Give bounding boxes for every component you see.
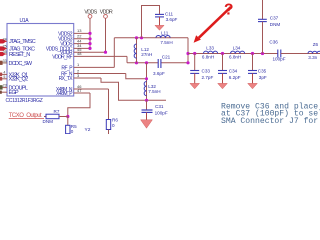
inductor L11 7.5nH — [156, 30, 173, 45]
svg-text:EGP: EGP — [9, 90, 20, 96]
svg-text:7.5nH: 7.5nH — [160, 40, 172, 45]
svg-text:4: 4 — [3, 71, 5, 75]
node LPF takeoff — [186, 52, 189, 55]
node at lower line right end — [186, 61, 189, 64]
pin VDDR_RF (48) — [52, 51, 127, 60]
net label TCXO_Output — [9, 113, 44, 119]
pin DCDC_SW (33) — [0, 59, 33, 67]
resistor R5 0 — [66, 117, 78, 134]
wire RF_P riser — [113, 38, 115, 68]
svg-text:48: 48 — [77, 51, 82, 56]
svg-text:Y2: Y2 — [85, 127, 91, 133]
wire X48M_P staircase — [68, 93, 90, 117]
inductor L12 27nH — [134, 38, 152, 63]
svg-text:C37: C37 — [270, 16, 279, 21]
ground under C31 — [141, 112, 153, 128]
node on bus pin44 — [88, 42, 91, 45]
wire VDDR drop — [105, 18, 107, 52]
svg-text:C21: C21 — [162, 54, 171, 59]
svg-text:3.3n: 3.3n — [308, 55, 317, 60]
svg-text:L11: L11 — [161, 30, 169, 35]
svg-text:L34: L34 — [233, 45, 241, 50]
svg-text:100pF: 100pF — [155, 110, 168, 115]
node C37 tap — [261, 52, 264, 55]
ground under C33 — [190, 83, 200, 88]
resistor R6 0 — [106, 118, 118, 134]
svg-text:3.6pF: 3.6pF — [166, 17, 178, 22]
pin EGP — [0, 90, 19, 96]
svg-text:100pF: 100pF — [273, 56, 286, 61]
svg-text:5: 5 — [3, 75, 5, 79]
wire VDDR_RF riser to lower line — [126, 56, 128, 62]
svg-text:C31: C31 — [155, 104, 164, 109]
node C34 tap — [221, 52, 224, 55]
capacitor C31 100pF — [142, 100, 168, 115]
svg-text:SMA Connector J7 for the: SMA Connector J7 for the — [221, 117, 320, 126]
power symbol VDDR — [100, 10, 113, 19]
wire RF_N route — [126, 74, 147, 79]
svg-text:Z6: Z6 — [313, 42, 319, 47]
svg-text:L33: L33 — [206, 45, 214, 50]
note text — [221, 102, 320, 126]
pin VDDR (45) — [60, 47, 105, 56]
svg-text:1: 1 — [77, 62, 80, 67]
svg-text:JTAG_TMSC: JTAG_TMSC — [9, 39, 36, 45]
svg-text:3pF: 3pF — [259, 75, 267, 80]
pin RF_N (2) — [61, 68, 126, 77]
svg-text:C11: C11 — [165, 12, 174, 17]
svg-text:35: 35 — [3, 50, 7, 54]
capacitor C36 100pF (series) — [269, 39, 307, 61]
node L12 top — [135, 36, 138, 39]
svg-text:0: 0 — [71, 129, 74, 134]
ground under C34 — [218, 83, 228, 88]
wire C11 loop — [142, 6, 160, 38]
node C11 riser tap — [140, 36, 143, 39]
svg-text:47: 47 — [77, 88, 82, 93]
pin X32K_Q2 — [0, 75, 28, 83]
svg-text:C34: C34 — [229, 68, 238, 73]
svg-text:13: 13 — [77, 28, 82, 33]
node C35 tap — [251, 52, 254, 55]
svg-text:6.8nH: 6.8nH — [202, 55, 214, 60]
svg-text:C36: C36 — [269, 39, 278, 44]
svg-text:X32K_Q2: X32K_Q2 — [9, 77, 29, 83]
wire RX_TX route — [101, 78, 166, 100]
pin JTAG_TMSC (24) — [0, 37, 36, 45]
node on bus pin22 — [88, 37, 91, 40]
wire lower RF line (VDDR_RF net) — [127, 62, 158, 64]
svg-text:RF_P: RF_P — [61, 65, 73, 71]
node on bus pin34 — [88, 47, 91, 50]
svg-text:33: 33 — [3, 59, 7, 63]
svg-text:RX_TX: RX_TX — [59, 76, 74, 82]
node R5/R7 junction — [66, 115, 69, 118]
node C31 top — [145, 99, 148, 102]
inductor L34 6.8nH — [229, 45, 245, 59]
svg-text:23: 23 — [3, 84, 7, 88]
wire X48M_N to R6 — [108, 89, 110, 120]
pin VDDS (44) — [60, 38, 90, 47]
svg-text:?: ? — [224, 2, 233, 19]
node RF_N joins L32 — [145, 77, 148, 80]
svg-text:DNM: DNM — [270, 22, 281, 27]
capacitor C33 2.7pF — [190, 54, 213, 85]
pin VDDS3 (22) — [58, 34, 90, 43]
svg-text:6.2pF: 6.2pF — [229, 75, 241, 80]
node VDDR pin45 — [104, 51, 107, 54]
svg-text:CC1312R1F3RGZ: CC1312R1F3RGZ — [6, 98, 43, 104]
node C33 tap — [193, 52, 196, 55]
svg-text:VDDR_RF: VDDR_RF — [52, 54, 72, 60]
power symbol VDDS — [84, 10, 97, 19]
svg-text:25: 25 — [3, 45, 7, 49]
capacitor C35 3pF — [248, 54, 267, 85]
pin JTAG_TCKC (25) — [0, 45, 35, 53]
wire L11 right descent — [187, 38, 189, 63]
svg-text:X48M_P: X48M_P — [56, 91, 73, 97]
ground under C35 — [248, 83, 258, 88]
capacitor C21 3.6pF (series) — [153, 54, 171, 75]
svg-text:3.6pF: 3.6pF — [153, 71, 165, 76]
inductor L33 6.8nH — [202, 45, 218, 59]
capacitor C37 DNM riser — [258, 0, 280, 54]
svg-text:24: 24 — [3, 37, 7, 41]
pin VDDS_DCDC (34) — [46, 43, 90, 52]
wire VDDS bus — [89, 18, 91, 48]
svg-text:27nH: 27nH — [141, 52, 152, 57]
pin X32K_Q1 — [0, 71, 28, 79]
svg-text:DCDC_SW: DCDC_SW — [9, 61, 33, 67]
resistor R7 DNM — [43, 109, 68, 124]
svg-text:7.5nH: 7.5nH — [148, 89, 160, 94]
wire L11 top line — [114, 37, 188, 39]
pin RESET_N (35) — [0, 50, 30, 58]
node on bus pin13 — [88, 32, 91, 35]
capacitor C34 6.2pF — [218, 54, 241, 85]
pin VDDS2 (13) — [58, 28, 90, 37]
inductor Z6 (clipped at edge) — [307, 42, 320, 60]
node L12 bottom — [135, 61, 138, 64]
svg-text:0: 0 — [112, 123, 115, 128]
svg-text:C35: C35 — [258, 68, 267, 73]
svg-text:6.8nH: 6.8nH — [229, 55, 241, 60]
annotation arrow — [194, 7, 231, 43]
inductor L32 7.5nH — [144, 63, 160, 101]
svg-text:2.7pF: 2.7pF — [202, 75, 214, 80]
IC U1A CC1312R1F3RGZ body — [6, 18, 74, 104]
svg-text:C33: C33 — [202, 68, 211, 73]
capacitor C11 3.6pF — [155, 12, 178, 22]
svg-text:DNM: DNM — [43, 119, 54, 124]
wire LPF line — [188, 53, 278, 55]
ground under C11 — [155, 17, 164, 30]
svg-text:RESET_N: RESET_N — [9, 52, 30, 58]
pin RX_TX (3) — [59, 73, 101, 82]
pin DCOUPL (23) — [0, 84, 28, 92]
svg-text:R7: R7 — [54, 109, 60, 114]
pin RF_P (1) — [61, 62, 114, 71]
pin X48M_P (47) — [56, 88, 90, 97]
svg-text:U1A: U1A — [20, 18, 30, 24]
node L32 top — [145, 61, 148, 64]
pin X48M_N (46) — [56, 84, 109, 93]
svg-text:R6: R6 — [112, 118, 118, 123]
